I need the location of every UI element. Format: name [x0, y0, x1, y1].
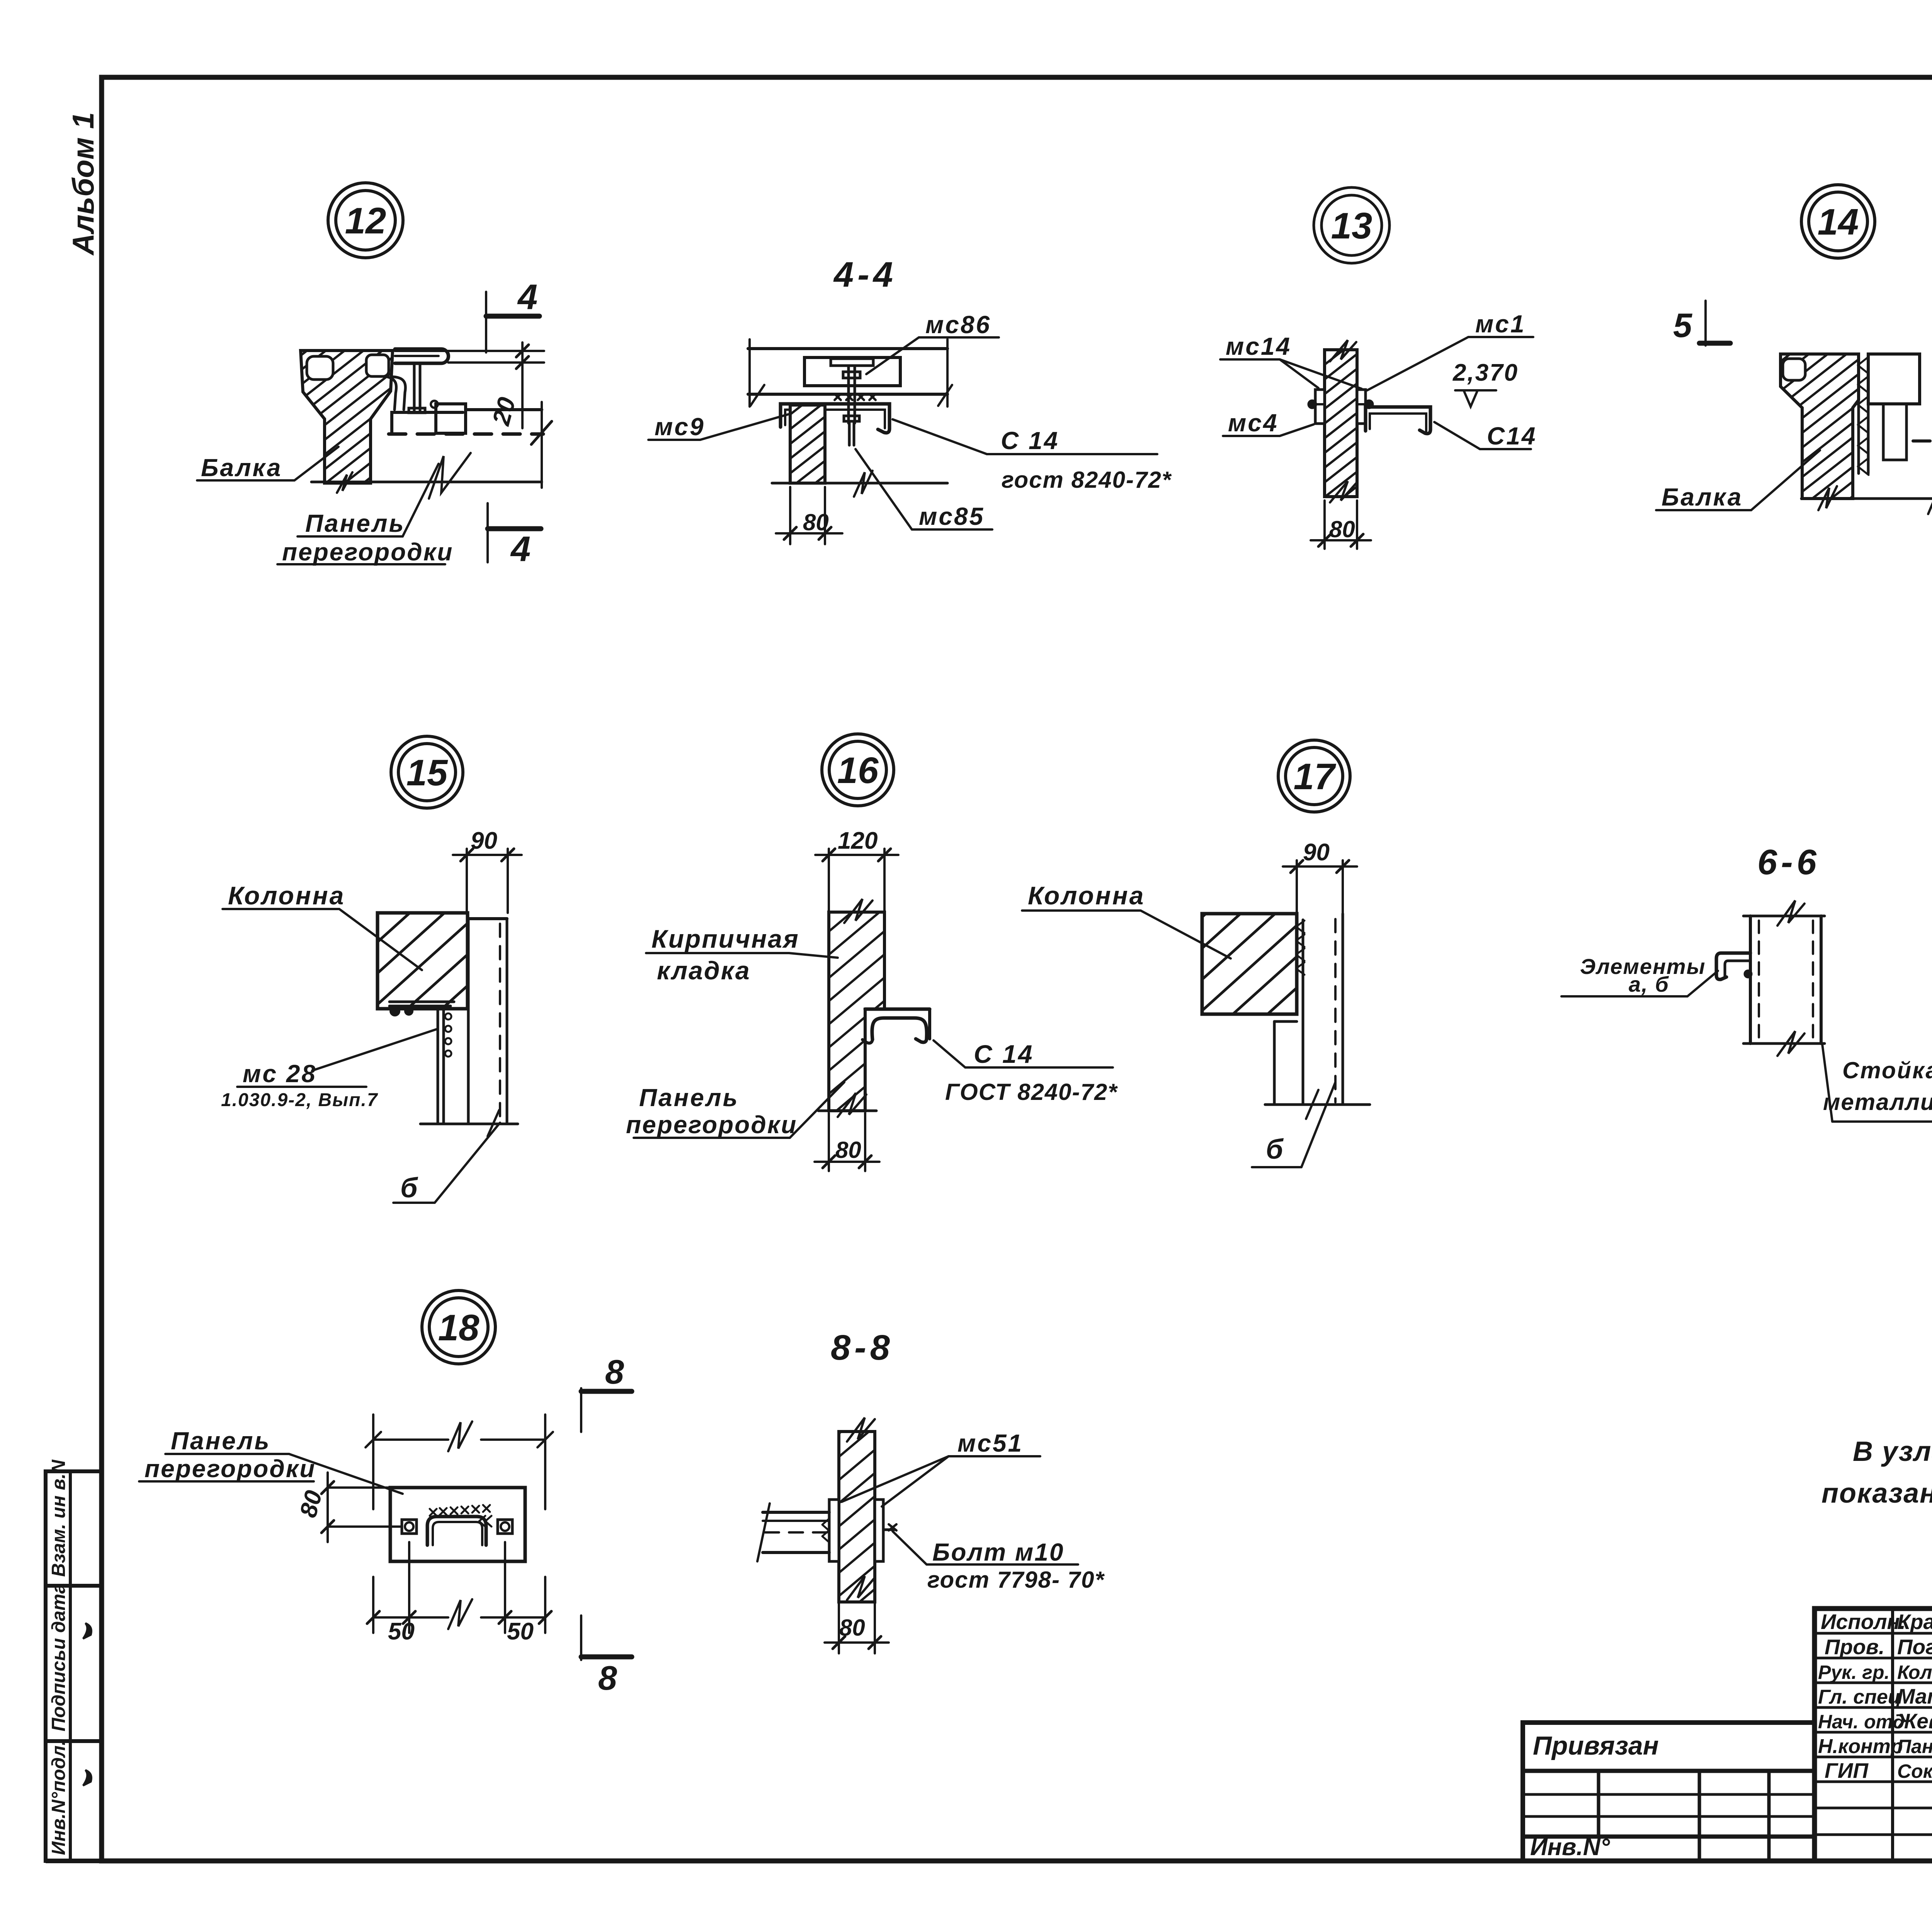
svg-text:16: 16: [837, 750, 879, 791]
svg-text:Гл. спец: Гл. спец: [1818, 1686, 1901, 1708]
svg-text:Погосян: Погосян: [1897, 1635, 1932, 1659]
svg-text:Инв.N°подл.: Инв.N°подл.: [48, 1740, 69, 1855]
svg-text:В узлах 12,14 плиты пок: В узлах 12,14 плиты покрытия условно не: [1853, 1436, 1932, 1467]
svg-text:Альбом 1: Альбом 1: [66, 112, 100, 256]
svg-text:мс14: мс14: [1226, 332, 1291, 360]
svg-text:а, б: а, б: [1629, 972, 1669, 996]
svg-text:120: 120: [838, 827, 878, 854]
svg-text:8-8: 8-8: [831, 1328, 894, 1367]
svg-text:б: б: [1266, 1134, 1284, 1165]
svg-text:Матвеев: Матвеев: [1897, 1684, 1932, 1708]
svg-text:Кирпичная: Кирпичная: [651, 924, 799, 953]
svg-text:80: 80: [835, 1137, 861, 1163]
svg-text:8: 8: [598, 1659, 617, 1697]
svg-text:Подписьи дата: Подписьи дата: [48, 1583, 69, 1731]
svg-text:С 14: С 14: [1001, 427, 1059, 455]
svg-text:90: 90: [471, 827, 497, 854]
svg-text:гост 7798- 70*: гост 7798- 70*: [927, 1567, 1105, 1593]
svg-text:Болт м10: Болт м10: [932, 1538, 1064, 1566]
svg-text:мс86: мс86: [925, 311, 991, 339]
svg-text:Колонна: Колонна: [1028, 881, 1145, 910]
svg-text:гост 8240-72*: гост 8240-72*: [1002, 467, 1172, 493]
svg-text:15: 15: [406, 752, 448, 793]
svg-text:показаны: показаны: [1821, 1478, 1932, 1509]
svg-text:Панащенко: Панащенко: [1897, 1736, 1932, 1757]
svg-text:ГОСТ 8240-72*: ГОСТ 8240-72*: [945, 1079, 1118, 1105]
svg-text:1.030.9-2, Вып.7: 1.030.9-2, Вып.7: [221, 1090, 378, 1110]
svg-text:80: 80: [803, 509, 829, 535]
svg-text:5: 5: [1673, 306, 1692, 344]
svg-text:Панель: Панель: [305, 509, 405, 537]
svg-text:50: 50: [388, 1618, 415, 1645]
svg-text:Панель: Панель: [171, 1427, 270, 1455]
svg-text:12: 12: [345, 200, 386, 242]
svg-text:б: б: [400, 1173, 418, 1204]
svg-text:Привязан: Привязан: [1533, 1731, 1659, 1760]
svg-text:20: 20: [487, 394, 521, 428]
svg-text:Соколовский: Соколовский: [1897, 1760, 1932, 1782]
svg-text:80: 80: [1329, 516, 1355, 542]
svg-text:4: 4: [517, 277, 537, 317]
svg-text:мс51: мс51: [957, 1429, 1023, 1457]
svg-text:Рук. гр.: Рук. гр.: [1818, 1661, 1889, 1683]
svg-text:4: 4: [510, 529, 531, 569]
svg-text:Пров.: Пров.: [1825, 1635, 1884, 1659]
svg-text:кладка: кладка: [657, 956, 751, 985]
svg-text:Панель: Панель: [639, 1084, 739, 1112]
svg-text:перегородки: перегородки: [282, 538, 453, 566]
svg-text:50: 50: [507, 1618, 534, 1645]
svg-text:2,370: 2,370: [1452, 359, 1519, 386]
svg-text:Колонна: Колонна: [228, 881, 345, 910]
svg-text:Взам. ин в.N: Взам. ин в.N: [48, 1459, 69, 1577]
svg-text:мс 28: мс 28: [243, 1060, 317, 1088]
svg-text:Исполн.: Исполн.: [1821, 1610, 1906, 1634]
svg-text:6-6: 6-6: [1757, 843, 1820, 882]
svg-text:Стойка: Стойка: [1842, 1057, 1932, 1083]
svg-text:Балка: Балка: [1662, 483, 1743, 511]
svg-text:металлическая: металлическая: [1823, 1089, 1932, 1115]
svg-text:С14: С14: [1487, 422, 1537, 450]
svg-text:8: 8: [605, 1353, 624, 1391]
svg-text:Балка: Балка: [201, 454, 282, 482]
svg-text:13: 13: [1331, 205, 1372, 247]
svg-text:Колединцева: Колединцева: [1897, 1661, 1932, 1683]
svg-text:Инв.N°: Инв.N°: [1530, 1834, 1610, 1861]
svg-text:мс85: мс85: [919, 502, 985, 530]
svg-text:ГИП: ГИП: [1825, 1758, 1869, 1782]
svg-text:90: 90: [1303, 839, 1330, 866]
svg-text:Кравцова: Кравцова: [1897, 1610, 1932, 1634]
svg-text:14: 14: [1818, 201, 1859, 243]
svg-text:80: 80: [839, 1615, 865, 1641]
svg-text:мс1: мс1: [1475, 310, 1526, 338]
svg-text:перегородки: перегородки: [145, 1455, 316, 1483]
svg-text:С 14: С 14: [974, 1040, 1034, 1068]
svg-text:мс4: мс4: [1228, 409, 1279, 437]
svg-text:4-4: 4-4: [833, 255, 897, 294]
svg-text:Нач. отд: Нач. отд: [1818, 1711, 1905, 1733]
svg-text:18: 18: [438, 1307, 480, 1348]
svg-text:Н.контр: Н.контр: [1818, 1735, 1903, 1758]
svg-text:перегородки: перегородки: [626, 1111, 797, 1139]
svg-text:17: 17: [1294, 756, 1337, 797]
svg-text:Жевнеров: Жевнеров: [1896, 1709, 1932, 1733]
svg-text:мс9: мс9: [655, 413, 705, 441]
